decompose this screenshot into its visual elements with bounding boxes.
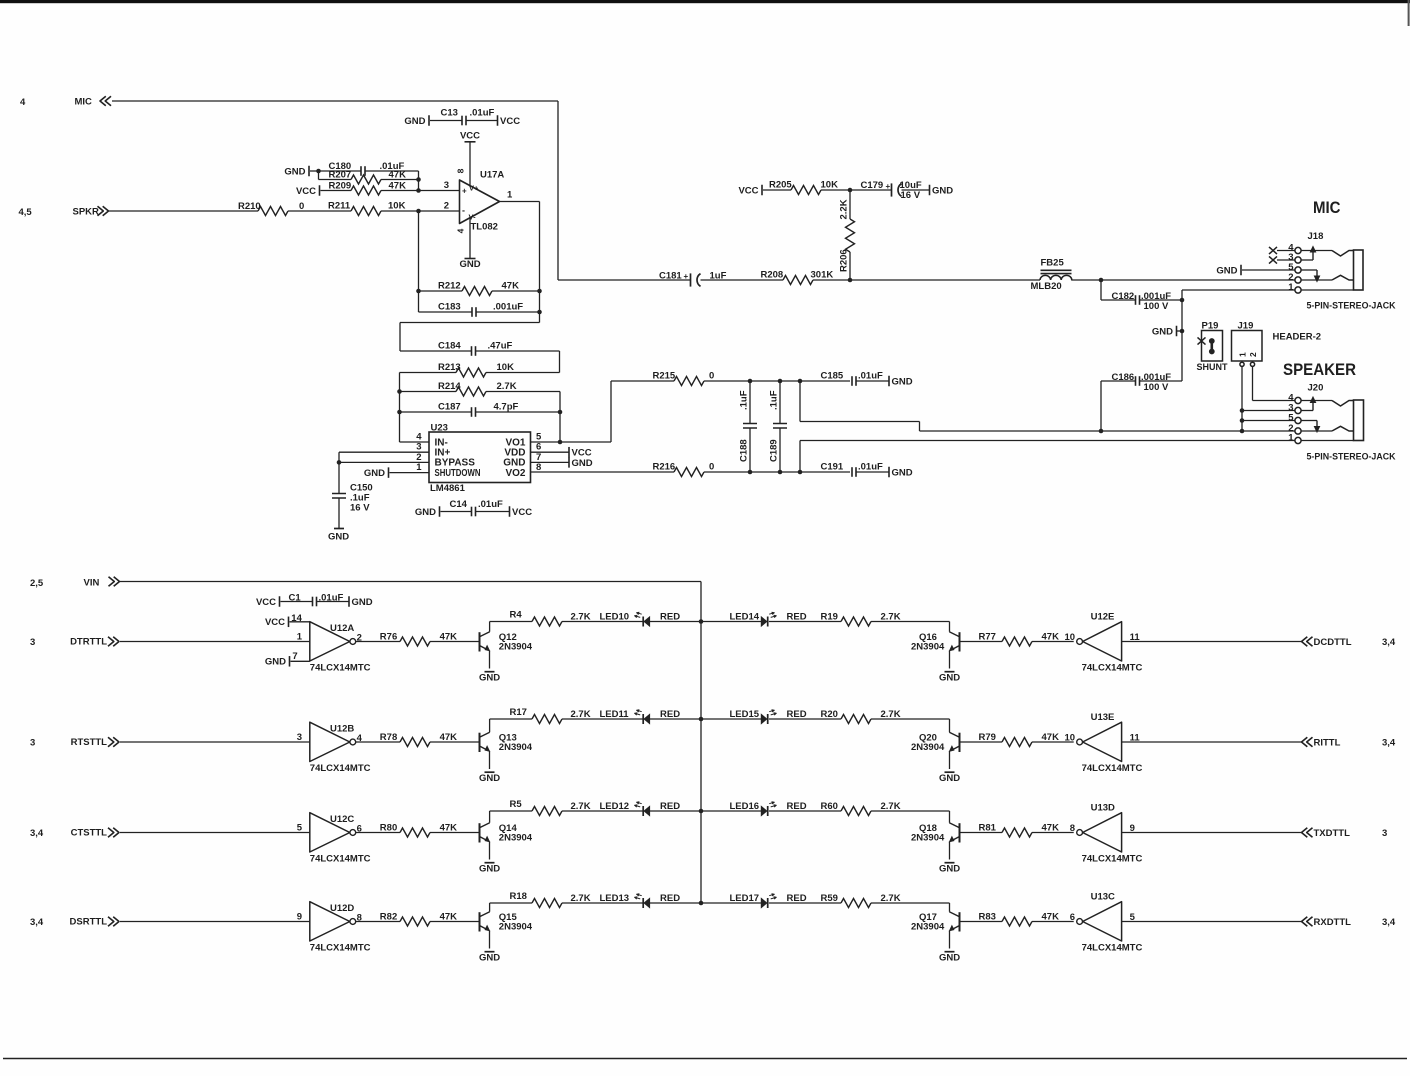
svg-text:U12D: U12D xyxy=(330,903,354,914)
jack J18 ring contact xyxy=(1332,275,1354,280)
svg-text:1: 1 xyxy=(1288,433,1294,444)
switch arrow J18 tip xyxy=(1312,251,1314,260)
capacitor C187 4.7pF feedback xyxy=(397,410,402,415)
wire U13E to RITTL xyxy=(1122,741,1302,743)
svg-text:.01uF: .01uF xyxy=(470,108,495,119)
svg-text:74LCX14MTC: 74LCX14MTC xyxy=(1082,763,1143,774)
svg-text:GND: GND xyxy=(939,672,960,683)
svg-text:10: 10 xyxy=(1065,632,1076,643)
svg-text:VCC: VCC xyxy=(512,507,532,518)
svg-text:VIN: VIN xyxy=(84,578,100,589)
wire R210 to R211 xyxy=(288,210,351,212)
svg-text:74LCX14MTC: 74LCX14MTC xyxy=(310,943,371,954)
svg-text:U13C: U13C xyxy=(1091,892,1115,903)
svg-text:RTSTTL: RTSTTL xyxy=(71,737,108,748)
svg-text:74LCX14MTC: 74LCX14MTC xyxy=(1082,854,1143,865)
svg-text:R212: R212 xyxy=(438,281,461,292)
svg-text:3: 3 xyxy=(1382,828,1387,839)
wire VCC to U17A xyxy=(469,142,471,185)
wire R78 to Q13 base xyxy=(430,741,480,743)
transistor Q15 2N3904 xyxy=(479,912,481,931)
svg-text:R205: R205 xyxy=(769,180,792,191)
svg-text:1: 1 xyxy=(1288,282,1294,293)
svg-text:R210: R210 xyxy=(238,201,261,212)
svg-text:VO2: VO2 xyxy=(505,468,525,479)
svg-text:GND: GND xyxy=(939,773,960,784)
svg-text:R211: R211 xyxy=(328,201,351,212)
svg-text:2N3904: 2N3904 xyxy=(911,921,945,932)
svg-text:DTRTTL: DTRTTL xyxy=(70,637,107,648)
svg-text:3,4: 3,4 xyxy=(30,828,44,839)
page right edge mark xyxy=(1408,0,1410,26)
svg-text:4.7pF: 4.7pF xyxy=(494,402,519,413)
svg-text:LED11: LED11 xyxy=(600,709,630,720)
wire R60 to Q18 xyxy=(871,810,950,812)
transistor Q20 2N3904 xyxy=(959,733,961,752)
svg-text:R78: R78 xyxy=(380,732,397,743)
svg-text:P19: P19 xyxy=(1202,320,1219,331)
svg-text:GND: GND xyxy=(939,863,960,874)
wire MIC to C181 xyxy=(112,100,558,102)
svg-text:GND: GND xyxy=(572,458,593,469)
svg-text:R81: R81 xyxy=(979,823,997,834)
svg-text:+: + xyxy=(886,182,891,191)
svg-text:GND: GND xyxy=(479,773,500,784)
svg-text:J20: J20 xyxy=(1308,383,1324,394)
svg-text:GND: GND xyxy=(892,467,913,478)
svg-text:10K: 10K xyxy=(497,362,515,373)
svg-text:R77: R77 xyxy=(979,632,996,643)
capacitor C189 .1uF xyxy=(779,381,781,424)
svg-text:47K: 47K xyxy=(502,281,520,292)
power VCC at U23 VDD pin 6 xyxy=(531,451,569,453)
svg-text:16 V: 16 V xyxy=(350,502,370,513)
svg-text:GND: GND xyxy=(364,468,385,479)
ground at U23 GND pin 7 xyxy=(531,461,569,463)
inverter U13E 74LCX14MTC xyxy=(1083,722,1122,761)
svg-text:4: 4 xyxy=(20,97,26,108)
svg-text:2N3904: 2N3904 xyxy=(911,742,945,753)
svg-text:LM4861: LM4861 xyxy=(430,483,466,494)
svg-text:V+: V+ xyxy=(469,184,479,193)
svg-text:C181: C181 xyxy=(659,271,682,282)
wire VIN rail to LED16 xyxy=(701,810,761,812)
svg-text:R19: R19 xyxy=(821,612,838,623)
svg-text:74LCX14MTC: 74LCX14MTC xyxy=(310,854,371,865)
wire RTSTTL input xyxy=(120,741,310,743)
svg-text:R4: R4 xyxy=(510,610,523,621)
svg-text:C189: C189 xyxy=(769,439,780,462)
svg-text:-: - xyxy=(462,206,465,216)
svg-text:C183: C183 xyxy=(438,302,461,313)
svg-text:DCDTTL: DCDTTL xyxy=(1314,637,1352,648)
svg-text:10: 10 xyxy=(1065,733,1076,744)
svg-text:CTSTTL: CTSTTL xyxy=(71,828,108,839)
resistor R20 2.7K xyxy=(769,718,841,720)
svg-text:GND: GND xyxy=(1216,265,1237,276)
svg-text:GND: GND xyxy=(265,657,286,668)
svg-text:GND: GND xyxy=(932,185,953,196)
svg-text:.1uF: .1uF xyxy=(739,390,750,410)
svg-text:R216: R216 xyxy=(653,462,676,473)
resistor R205 10K xyxy=(763,189,791,191)
svg-text:3,4: 3,4 xyxy=(1382,737,1396,748)
svg-text:3: 3 xyxy=(30,737,35,748)
svg-text:74LCX14MTC: 74LCX14MTC xyxy=(310,763,371,774)
wire U12A to R76 xyxy=(356,641,400,643)
svg-text:2N3904: 2N3904 xyxy=(499,832,533,843)
svg-text:1: 1 xyxy=(297,632,303,643)
svg-text:VCC: VCC xyxy=(256,597,276,608)
svg-text:4,5: 4,5 xyxy=(19,207,33,218)
svg-text:LED15: LED15 xyxy=(730,709,760,720)
svg-text:J18: J18 xyxy=(1308,231,1324,242)
svg-text:FB25: FB25 xyxy=(1041,257,1065,268)
wire R216 to speaker jack sleeve xyxy=(799,441,801,473)
svg-text:1: 1 xyxy=(416,462,422,473)
wire U13D to TXDTTL xyxy=(1122,832,1302,834)
svg-text:74LCX14MTC: 74LCX14MTC xyxy=(1082,663,1143,674)
svg-text:C185: C185 xyxy=(821,371,844,382)
svg-text:2N3904: 2N3904 xyxy=(911,641,945,652)
wire R213 to U23 IN- xyxy=(399,373,401,443)
svg-text:2N3904: 2N3904 xyxy=(499,742,533,753)
wire U23 IN- pin 4 xyxy=(400,441,430,443)
svg-text:U12A: U12A xyxy=(330,623,354,634)
svg-text:R17: R17 xyxy=(510,707,527,718)
wire U12D to R82 xyxy=(356,921,400,923)
svg-text:GND: GND xyxy=(892,376,913,387)
wire R5 to LED12 xyxy=(562,810,643,812)
transistor Q18 2N3904 xyxy=(959,823,961,842)
svg-text:+: + xyxy=(684,272,689,281)
svg-text:U17A: U17A xyxy=(480,169,504,180)
svg-text:C184: C184 xyxy=(438,341,461,352)
svg-text:VCC: VCC xyxy=(265,617,285,628)
svg-text:3,4: 3,4 xyxy=(1382,917,1396,928)
svg-text:R80: R80 xyxy=(380,823,397,834)
svg-text:GND: GND xyxy=(939,952,960,963)
wire U23 VO1 pin 5 xyxy=(531,441,612,443)
switch arrow J20 tip xyxy=(1312,402,1314,411)
transistor Q13 2N3904 xyxy=(479,733,481,752)
inverter U13D 74LCX14MTC xyxy=(1083,813,1122,852)
svg-text:.01uF: .01uF xyxy=(478,499,503,510)
resistor R19 2.7K xyxy=(769,621,841,623)
wire FB25 to J18 pin 2 xyxy=(1071,279,1295,281)
svg-text:GND: GND xyxy=(404,116,425,127)
jack J18 tip contact xyxy=(1332,251,1354,257)
ground below U17A xyxy=(465,258,476,260)
wire J19 pin 2 to J20 pin 4 xyxy=(1252,367,1254,401)
svg-text:.1uF: .1uF xyxy=(769,390,780,410)
svg-text:2: 2 xyxy=(444,201,449,212)
wire R17 to LED11 xyxy=(562,718,643,720)
wire R20 to Q20 xyxy=(871,718,950,720)
svg-text:C188: C188 xyxy=(739,439,750,462)
wire U23 BYPASS pin 2 xyxy=(339,461,429,463)
svg-text:C179: C179 xyxy=(861,180,884,191)
svg-text:TL082: TL082 xyxy=(471,222,498,233)
svg-text:R83: R83 xyxy=(979,912,996,923)
svg-text:4: 4 xyxy=(456,228,466,233)
wire C182 to J18 pin 1 xyxy=(1181,300,1183,381)
wire SPKR to R210 xyxy=(109,210,258,212)
page bottom edge line xyxy=(3,1058,1407,1060)
svg-text:.001uF: .001uF xyxy=(493,302,523,313)
wire R80 to Q14 base xyxy=(430,832,480,834)
svg-text:2.7K: 2.7K xyxy=(497,381,517,392)
capacitor C179 10uF 16V xyxy=(850,189,892,191)
wire DTRTTL input xyxy=(120,641,310,643)
svg-text:C1: C1 xyxy=(289,593,302,604)
svg-text:R209: R209 xyxy=(329,180,352,191)
svg-text:R215: R215 xyxy=(653,371,676,382)
svg-text:U13D: U13D xyxy=(1091,803,1115,814)
wire Q16 base to R77 xyxy=(960,641,1003,643)
jack J20 body xyxy=(1354,400,1364,441)
switch arrow J20 ring xyxy=(1316,421,1318,428)
svg-text:SPEAKER: SPEAKER xyxy=(1283,360,1356,379)
resistor R206 2.2K xyxy=(849,190,851,219)
svg-text:R5: R5 xyxy=(510,799,523,810)
wire VIN rail xyxy=(120,581,701,583)
wire LED11 to VIN rail xyxy=(650,718,701,720)
svg-text:GND: GND xyxy=(479,863,500,874)
svg-text:C13: C13 xyxy=(441,108,458,119)
capacitor C188 .1uF xyxy=(749,381,751,424)
svg-text:5: 5 xyxy=(1288,413,1294,424)
wire J19 pin 1 to J20 xyxy=(1241,367,1243,432)
svg-text:LED10: LED10 xyxy=(600,612,630,623)
svg-text:R20: R20 xyxy=(821,709,838,720)
wire CTSTTL input xyxy=(120,832,310,834)
wire LED12 to VIN rail xyxy=(650,810,701,812)
capacitor C183 .001uF feedback xyxy=(418,291,420,312)
svg-text:3: 3 xyxy=(30,637,35,648)
jack J20 ring contact xyxy=(1332,426,1354,431)
wire R215 to speaker jack ring xyxy=(799,381,801,422)
svg-text:2,5: 2,5 xyxy=(30,578,44,589)
svg-text:8: 8 xyxy=(536,462,541,473)
svg-text:10K: 10K xyxy=(821,180,839,191)
svg-text:C187: C187 xyxy=(438,402,461,413)
jack J20 tip contact xyxy=(1332,401,1354,407)
wire U23 IN+ pin 3 xyxy=(339,451,429,453)
wire VIN rail to LED14 xyxy=(701,621,761,623)
svg-text:74LCX14MTC: 74LCX14MTC xyxy=(310,663,371,674)
wire U13C to RXDTTL xyxy=(1122,921,1302,923)
transistor Q17 2N3904 xyxy=(959,912,961,931)
svg-text:LED17: LED17 xyxy=(730,893,760,904)
wire LED10 to VIN rail xyxy=(650,621,701,623)
capacitor C182 .001uF 100V xyxy=(1100,280,1102,300)
transistor Q14 2N3904 xyxy=(479,823,481,842)
svg-text:R207: R207 xyxy=(329,169,352,180)
svg-text:RITTL: RITTL xyxy=(1314,737,1341,748)
svg-text:1: 1 xyxy=(507,190,513,201)
resistor R214 2.7K feedback xyxy=(397,389,402,394)
wire R76 to Q12 base xyxy=(430,641,480,643)
svg-text:100 V: 100 V xyxy=(1144,382,1169,393)
svg-text:7: 7 xyxy=(292,651,297,662)
wire U12E to DCDTTL xyxy=(1122,641,1302,643)
wire LED13 to VIN rail xyxy=(650,902,701,904)
wire R83 to U13C xyxy=(1032,921,1074,923)
svg-text:MIC: MIC xyxy=(1313,199,1341,217)
wire C184 to R213 xyxy=(559,351,561,373)
svg-text:9: 9 xyxy=(297,912,302,923)
svg-text:VCC: VCC xyxy=(738,185,758,196)
resistor R5 2.7K xyxy=(489,811,491,823)
svg-text:GND: GND xyxy=(284,166,305,177)
port DCDTTL (off-page) xyxy=(1302,637,1313,647)
wire VIN rail to LED17 xyxy=(701,902,761,904)
svg-text:U12C: U12C xyxy=(330,814,354,825)
svg-text:R79: R79 xyxy=(979,732,996,743)
jack J18 body xyxy=(1354,250,1364,290)
svg-text:VCC: VCC xyxy=(296,186,316,197)
wire Q18 base to R81 xyxy=(960,832,1003,834)
transistor Q12 2N3904 xyxy=(479,632,481,651)
svg-text:3,4: 3,4 xyxy=(30,917,44,928)
svg-text:47K: 47K xyxy=(389,169,407,180)
wire Q20 base to R79 xyxy=(960,741,1003,743)
svg-text:R76: R76 xyxy=(380,632,397,643)
op-amp U17A TL082 xyxy=(460,180,500,224)
svg-text:2N3904: 2N3904 xyxy=(911,832,945,843)
svg-text:5-PIN-STEREO-JACK: 5-PIN-STEREO-JACK xyxy=(1307,301,1396,312)
port RXDTTL (off-page) xyxy=(1302,917,1313,927)
svg-text:GND: GND xyxy=(459,259,480,270)
wire R59 to Q17 xyxy=(871,902,950,904)
svg-text:2.2K: 2.2K xyxy=(839,199,850,219)
ground below C150 xyxy=(334,528,344,530)
svg-text:U12B: U12B xyxy=(330,724,354,735)
svg-text:J19: J19 xyxy=(1238,320,1254,331)
svg-text:U13E: U13E xyxy=(1091,712,1115,723)
svg-text:1: 1 xyxy=(1238,352,1248,357)
svg-text:GND: GND xyxy=(479,672,500,683)
svg-text:TXDTTL: TXDTTL xyxy=(1314,828,1351,839)
svg-text:SHUNT: SHUNT xyxy=(1197,362,1228,373)
svg-text:U12E: U12E xyxy=(1091,612,1115,623)
svg-text:VCC: VCC xyxy=(460,131,480,142)
svg-text:GND: GND xyxy=(415,507,436,518)
wire U12B to R78 xyxy=(356,741,400,743)
svg-text:+: + xyxy=(462,187,467,196)
svg-text:.47uF: .47uF xyxy=(488,341,513,352)
resistor R212 47K feedback xyxy=(418,211,420,291)
wire U17A pin 4 to GND xyxy=(469,217,471,259)
resistor R4 2.7K xyxy=(489,622,491,632)
svg-text:47K: 47K xyxy=(389,180,407,191)
svg-text:R208: R208 xyxy=(761,270,784,281)
wire R4 to LED10 xyxy=(562,621,643,623)
svg-text:0: 0 xyxy=(709,371,714,382)
wire R211 to U17A pin 2 xyxy=(381,210,460,212)
svg-text:10K: 10K xyxy=(388,201,406,212)
svg-text:2N3904: 2N3904 xyxy=(499,921,533,932)
resistor R59 2.7K xyxy=(769,902,841,904)
svg-text:3,4: 3,4 xyxy=(1382,637,1396,648)
wire U12C to R80 xyxy=(356,832,400,834)
svg-text:74LCX14MTC: 74LCX14MTC xyxy=(1082,943,1143,954)
svg-text:C14: C14 xyxy=(450,499,468,510)
resistor R18 2.7K xyxy=(489,903,491,912)
wire U17A output xyxy=(500,201,540,203)
svg-text:100 V: 100 V xyxy=(1144,301,1169,312)
svg-text:SHUTDOWN: SHUTDOWN xyxy=(435,468,481,479)
wire R18 to LED13 xyxy=(562,902,643,904)
svg-text:R60: R60 xyxy=(821,801,838,812)
svg-text:8: 8 xyxy=(1070,823,1075,834)
svg-text:LED16: LED16 xyxy=(730,801,760,812)
svg-text:GND: GND xyxy=(1152,326,1173,337)
svg-text:6: 6 xyxy=(1070,912,1075,923)
resistor R215 0 xyxy=(610,381,612,442)
svg-text:R206: R206 xyxy=(839,249,850,272)
wire R82 to Q15 base xyxy=(430,921,480,923)
wire feedback to VO1 xyxy=(559,392,561,443)
wire R79 to U13E xyxy=(1032,741,1074,743)
svg-text:LED13: LED13 xyxy=(600,893,630,904)
wire C186 to speaker rail xyxy=(1100,381,1102,431)
svg-text:301K: 301K xyxy=(811,270,834,281)
port RITTL (off-page) xyxy=(1302,737,1313,747)
svg-text:R82: R82 xyxy=(380,912,397,923)
wire U17A output to C184 xyxy=(539,312,541,323)
svg-text:GND: GND xyxy=(479,952,500,963)
svg-text:8: 8 xyxy=(456,168,466,173)
svg-text:HEADER-2: HEADER-2 xyxy=(1273,331,1322,342)
svg-text:C191: C191 xyxy=(821,462,844,473)
svg-text:SPKR: SPKR xyxy=(73,207,100,218)
switch arrow J18 ring xyxy=(1316,270,1318,277)
wire R77 to U12E xyxy=(1032,641,1074,643)
resistor R17 2.7K xyxy=(489,719,491,732)
svg-text:DSRTTL: DSRTTL xyxy=(70,917,108,928)
wire R19 to Q16 xyxy=(871,621,950,623)
svg-text:RXDTTL: RXDTTL xyxy=(1314,917,1352,928)
inverter U12E 74LCX14MTC xyxy=(1083,622,1122,661)
transistor Q16 2N3904 xyxy=(959,632,961,651)
wire C180 junctions xyxy=(318,171,320,180)
svg-text:.01uF: .01uF xyxy=(858,371,883,382)
svg-text:LED12: LED12 xyxy=(600,801,630,812)
svg-text:LED14: LED14 xyxy=(730,612,760,623)
svg-text:.01uF: .01uF xyxy=(858,462,883,473)
svg-text:2: 2 xyxy=(1248,352,1258,357)
inverter U13C 74LCX14MTC xyxy=(1083,902,1122,941)
svg-text:R59: R59 xyxy=(821,893,838,904)
wire Q17 base to R83 xyxy=(960,921,1003,923)
resistor R60 2.7K xyxy=(769,810,841,812)
svg-text:5: 5 xyxy=(297,823,303,834)
svg-text:MLB20: MLB20 xyxy=(1031,281,1062,292)
wire VIN rail to LED15 xyxy=(701,718,761,720)
svg-text:16 V: 16 V xyxy=(901,190,921,201)
capacitor C181 1uF coupling xyxy=(558,279,691,281)
page top edge bar xyxy=(0,0,1410,3)
wire DSRTTL input xyxy=(120,921,310,923)
port TXDTTL (off-page) xyxy=(1302,828,1313,838)
svg-text:5-PIN-STEREO-JACK: 5-PIN-STEREO-JACK xyxy=(1307,452,1396,463)
svg-text:MIC: MIC xyxy=(75,97,93,108)
resistor R216 0 xyxy=(531,471,675,473)
svg-text:0: 0 xyxy=(709,462,714,473)
svg-text:3: 3 xyxy=(297,732,302,743)
